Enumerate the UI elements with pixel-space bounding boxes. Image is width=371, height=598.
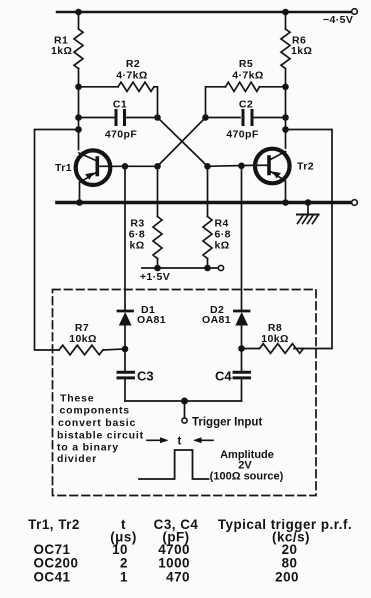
svg-text:1: 1 [120,570,128,585]
node Tr1 collector branch [75,126,82,133]
transistor Tr1 [76,150,112,185]
node R4 bottom [204,265,211,272]
resistor R8 [260,344,304,354]
svg-text:convert basic: convert basic [58,417,136,429]
svg-text:kΩ: kΩ [129,240,144,252]
wire R2 left lead [79,86,119,88]
wire Tr1 emitter [79,183,81,203]
dashed enclosure box [53,290,317,496]
resistor R6 [281,29,290,69]
capacitor C3 [118,372,134,378]
svg-text:−4·5V: −4·5V [323,14,353,26]
wire cross-coupling diagonal C2 to Tr1 base [158,118,206,167]
svg-text:Tr2: Tr2 [297,161,314,173]
node C1 right junction [154,114,161,121]
svg-text:C3: C3 [137,369,154,384]
terminal trigger input [182,418,187,423]
svg-text:to a binary: to a binary [57,442,119,454]
node Tr2 base / D2 branch [238,163,245,170]
svg-text:1kΩ: 1kΩ [51,45,72,57]
wire trigger bottom bus [125,400,242,402]
svg-text:R2: R2 [126,58,140,70]
node C2 right junction [282,114,289,121]
wire C2 right lead [253,117,286,119]
transistor Tr2 [254,149,290,184]
svg-text:80: 80 [282,556,298,571]
wire C1 right lead [125,117,158,119]
capacitor C1 [116,111,125,125]
wire Tr2 base [208,165,255,166]
svg-text:Tr1, Tr2: Tr1, Tr2 [28,517,80,532]
trigger pulse waveform [139,450,209,479]
svg-text:1kΩ: 1kΩ [291,45,312,57]
wire emitter/ground rail [57,201,352,205]
node Tr1 base / R3 branch [154,163,161,170]
svg-text:470pF: 470pF [226,129,259,141]
wire R5 right lead [260,86,286,88]
svg-text:470pF: 470pF [105,129,138,141]
node R3 bottom [154,265,161,272]
wire cross-coupling diagonal C1 to Tr2 base [158,118,208,167]
svg-text:(100Ω source): (100Ω source) [210,471,284,483]
wire C3 bottom lead [124,380,126,402]
node R6 top junction [282,9,289,16]
wire trigger stub [184,401,186,418]
svg-text:components: components [60,405,130,417]
wire R5 left lead + bend down [206,87,226,118]
svg-text:OC200: OC200 [34,556,79,571]
node R1 top junction [75,9,82,16]
svg-text:bistable circuit: bistable circuit [57,430,144,442]
node Tr2 collector branch [282,126,289,133]
svg-text:kΩ: kΩ [215,240,230,252]
node R7/D1/C3 junction [122,346,129,353]
svg-text:OA81: OA81 [202,314,231,326]
pulse width arrows t [147,437,213,443]
resistor R2 [118,82,154,91]
svg-text:t: t [178,436,182,448]
wire top supply rail [57,11,352,13]
resistor R3 [153,217,162,259]
svg-text:200: 200 [275,570,299,585]
table: component selection [28,517,352,585]
node C1 left junction [75,114,82,121]
svg-text:470: 470 [166,570,190,585]
terminal +1.5V [218,265,223,270]
node Tr2 base / R4 branch [204,163,211,170]
svg-text:C2: C2 [239,99,253,111]
wire R3 top lead [157,166,159,216]
capacitor C2 [243,111,252,125]
wire R1 bottom lead / collector column Tr1 [78,69,80,150]
resistor R5 [226,82,260,91]
svg-text:Tr1: Tr1 [55,162,72,174]
node R8/D2/C4 junction [238,345,245,352]
terminal ground rail right [352,200,358,206]
node R5/R6 junction [282,84,289,91]
wire left branch to R7 [35,130,79,351]
resistor R7 [59,345,103,355]
wire D2 column upper [241,166,243,310]
wire R3 bottom lead [157,259,159,269]
svg-text:4·7kΩ: 4·7kΩ [232,70,263,82]
node Tr1 emitter on rail [76,199,83,206]
svg-text:C4: C4 [215,369,232,384]
wire R6 top lead [285,12,287,29]
svg-text:R5: R5 [239,58,253,70]
terminal -4.5V [352,9,358,15]
diode D2 OA81 [235,311,250,326]
svg-text:These: These [60,393,94,405]
wire R2 right lead + bend down [154,87,158,118]
label Amplitude [210,449,284,483]
svg-text:OC41: OC41 [34,570,71,585]
svg-text:10kΩ: 10kΩ [261,333,289,345]
node R1/R2 junction [75,84,82,91]
wire R7 right lead [103,349,125,350]
node ground tap [305,199,312,206]
capacitor C4 [234,372,250,378]
ground symbol [297,203,319,224]
svg-text:2: 2 [120,556,128,571]
wire R8 left lead [242,348,260,350]
wire D1 column upper [124,166,126,310]
wire +1.5V supply [142,267,219,269]
wire R6 bottom lead / collector column Tr2 [285,69,287,149]
svg-text:+1·5V: +1·5V [140,271,170,283]
wire D1 to C3 [124,326,126,371]
node Tr2 emitter on rail [282,199,289,206]
wire C2 left lead [206,117,241,119]
svg-text:4·7kΩ: 4·7kΩ [116,70,147,82]
wire C1 left lead [79,117,116,119]
svg-text:divider: divider [57,453,97,465]
svg-text:C1: C1 [113,99,127,111]
svg-text:10kΩ: 10kΩ [69,333,97,345]
wire Tr2 emitter [285,182,287,203]
wire Tr1 base [112,165,159,167]
svg-text:Trigger Input: Trigger Input [192,417,262,429]
svg-text:OA81: OA81 [137,314,166,326]
node trigger junction [181,398,188,405]
resistor R1 [74,29,83,69]
node C2 left junction [202,114,209,121]
node Tr1 base / D1 branch [122,163,129,170]
wire D2 to C4 [241,326,243,371]
resistor R4 [203,217,212,259]
wire R4 top lead [207,166,209,216]
wire R4 bottom lead [207,259,209,269]
svg-text:1000: 1000 [158,556,190,571]
wire C4 bottom lead [241,380,243,402]
diode D1 OA81 [118,311,133,326]
wire R1 top lead [78,12,80,29]
wire right branch to R8 [286,130,333,349]
note text block [57,393,144,466]
